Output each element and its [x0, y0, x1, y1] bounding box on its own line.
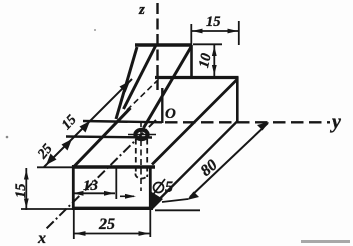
- z axis (dashed vertical): [156, 3, 158, 90]
- svg-text:O: O: [165, 106, 176, 122]
- edge: top face line Hb: [66, 137, 152, 138]
- dim 80: upper arrow: [257, 122, 269, 131]
- dim 25 bottom: right extension: [149, 210, 151, 237]
- dim 13: right arrow: [104, 191, 115, 196]
- edge: slab bottom-right long edge: [152, 122, 237, 207]
- hole right silhouette (dashed): [146, 139, 148, 177]
- hole bottom arc (dashed): [135, 174, 147, 179]
- edge: back face top edge H2: [155, 76, 239, 79]
- edge: ramp side edge S2: [124, 46, 156, 109]
- edge: ramp side edge S1: [116, 47, 137, 119]
- edge: wedge crest top edge H1: [135, 43, 192, 47]
- dim chain left 45deg: dimension line: [44, 79, 132, 167]
- dim 10: dimension line: [213, 45, 215, 76]
- dim 13: left arrow: [73, 191, 84, 196]
- scan noise: gray streak bottom right: [301, 240, 350, 243]
- hole left silhouette (dashed): [135, 139, 137, 174]
- dim 80: lower small arrow: [187, 192, 199, 201]
- edge: ramp side edge S3: [144, 47, 192, 128]
- dim 15 left: dimension line: [25, 168, 27, 210]
- hole top ellipse: [135, 130, 147, 139]
- edge: wedge back face right vertical V1: [190, 45, 193, 78]
- dim 15 left: top extension: [37, 166, 72, 168]
- edge: back face left vertical (below ramp): [161, 88, 163, 123]
- dim chain left: arrow at upper end: [120, 81, 131, 93]
- dim 13: right extension: [115, 168, 117, 199]
- x axis (dash-dot diagonal): [46, 120, 156, 229]
- svg-text:y: y: [330, 111, 341, 133]
- edge: wedge base line on top face Ha: [83, 121, 162, 122]
- svg-text:x: x: [37, 230, 46, 246]
- dim 15 top: left arrow: [192, 29, 203, 34]
- edge: front face bottom: [72, 207, 153, 210]
- dim 25 bottom: dimension line: [74, 233, 150, 235]
- dim 15 left: bottom extension: [21, 208, 72, 210]
- dim 13: dimension line: [72, 192, 115, 194]
- edge: slab top-left long edge hidden part (dashed): [127, 77, 161, 110]
- dim 15 top: left extension: [190, 24, 192, 45]
- svg-text:15: 15: [206, 14, 221, 30]
- dim phi5: leader arrow: [120, 195, 134, 197]
- dim 15 top: dimension line: [191, 30, 239, 32]
- svg-text:13: 13: [83, 178, 99, 194]
- edge: front face top: [72, 165, 155, 168]
- dim 10: top extension: [193, 43, 222, 45]
- scan noise: dot left: [6, 136, 9, 139]
- dim 10: top arrow: [212, 46, 217, 56]
- dim chain left: arrow up-right at Hb: [62, 139, 73, 151]
- svg-text:z: z: [138, 2, 145, 18]
- dim 15 left: bottom arrow: [24, 199, 29, 209]
- edge: slab top-right long edge: [152, 79, 238, 165]
- scan noise: dot top: [94, 29, 96, 31]
- y axis (dashed horizontal): [165, 121, 330, 123]
- dim chain left: arrow at lower end: [46, 154, 57, 166]
- dim phi5: phi slash: [152, 179, 165, 196]
- dim 80: dimension line: [190, 123, 268, 197]
- dim 15 left: top arrow: [24, 170, 29, 180]
- dim 25 bottom: left extension: [73, 210, 75, 239]
- edge: front face right: [149, 166, 152, 208]
- dim 10: bottom arrow: [212, 65, 217, 75]
- dim 15 top: right extension: [238, 21, 240, 45]
- dim chain left: arrow up-right at Ha: [80, 121, 91, 133]
- edge: slab top-left long edge (visible part): [74, 108, 131, 167]
- svg-text:15: 15: [13, 184, 29, 199]
- dim 80: sloppy tail segment: [162, 199, 188, 202]
- edge: front face left: [72, 165, 75, 210]
- hole vertical centerline (dashed): [140, 121, 142, 191]
- hole horizontal centerline: [128, 134, 156, 136]
- dim 15 top: right arrow: [228, 29, 239, 34]
- dim 80: big corner arrowhead: [150, 191, 163, 210]
- edge: back face right vertical: [236, 77, 239, 123]
- dim 25 bottom: left arrow: [75, 231, 86, 236]
- dim 80: bottom extension line: [155, 209, 200, 211]
- dim phi5: phi circle: [154, 183, 164, 193]
- dim 25 bottom: right arrow: [139, 231, 150, 236]
- svg-text:25: 25: [98, 216, 115, 233]
- svg-text:5: 5: [165, 179, 173, 196]
